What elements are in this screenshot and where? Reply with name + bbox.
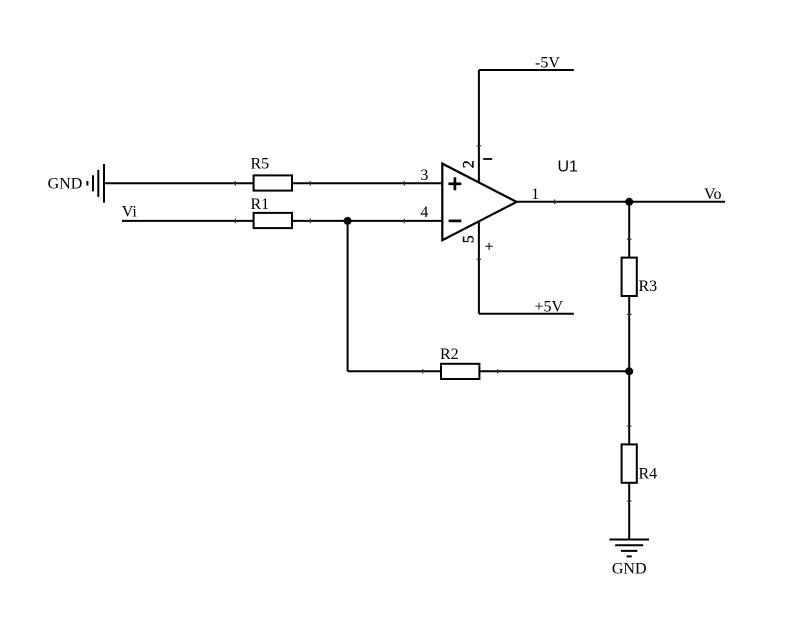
wire GND to pin 3 xyxy=(104,182,442,184)
wire R2 horizontal xyxy=(348,370,630,372)
ground symbol (bottom earth ground) xyxy=(609,540,649,557)
power symbol GND (left, rotated earth ground) xyxy=(87,164,104,203)
pin end ticks R2 xyxy=(423,369,498,374)
resistor R5 xyxy=(251,156,293,191)
wire output node to R3 xyxy=(628,202,630,371)
pin 2 polarity minus mark xyxy=(483,158,492,160)
junction node output/R3 xyxy=(625,198,633,206)
svg-text:U1: U1 xyxy=(558,158,579,175)
svg-text:2: 2 xyxy=(461,160,478,168)
svg-text:Vi: Vi xyxy=(122,204,138,221)
svg-text:R1: R1 xyxy=(251,196,270,213)
svg-text:4: 4 xyxy=(420,204,428,221)
svg-text:R3: R3 xyxy=(639,278,658,295)
svg-text:3: 3 xyxy=(420,167,428,184)
svg-text:-5V: -5V xyxy=(535,54,560,71)
pin end ticks R4 xyxy=(627,426,632,501)
op-amp non-inverting + mark xyxy=(448,177,461,190)
wire output pin 1 to Vo xyxy=(517,201,725,203)
svg-text:+5V: +5V xyxy=(535,299,564,316)
svg-text:GND: GND xyxy=(48,176,83,193)
op-amp inverting - mark xyxy=(449,220,462,223)
pin end ticks R1 xyxy=(235,219,310,224)
svg-text:5: 5 xyxy=(461,235,478,243)
wire feedback vertical from node A xyxy=(347,221,349,371)
op-amp U1 triangle xyxy=(442,164,516,241)
wire -5V horizontal xyxy=(479,69,574,71)
pin end ticks R5 xyxy=(235,181,310,186)
wire pin 2 vertical (-5V supply) xyxy=(478,70,480,183)
junction node A (R1/feedback) xyxy=(344,217,352,225)
wire pin 5 vertical (+5V supply) xyxy=(478,221,480,314)
pin end ticks R3 xyxy=(627,239,632,314)
wire node B to R4 to ground xyxy=(628,371,630,539)
resistor R4 xyxy=(622,444,658,482)
svg-text:Vo: Vo xyxy=(704,186,722,203)
svg-text:R4: R4 xyxy=(639,465,658,482)
pin end ticks U1 pins 3,4,1,2,5 xyxy=(404,146,554,259)
pin 5 polarity plus mark xyxy=(485,243,492,250)
svg-text:GND: GND xyxy=(612,560,647,577)
resistor R3 xyxy=(622,258,658,296)
svg-text:1: 1 xyxy=(531,186,539,203)
svg-text:R2: R2 xyxy=(440,346,459,363)
wire Vi to pin 4 xyxy=(122,220,442,222)
svg-text:R5: R5 xyxy=(251,156,270,173)
junction node B (R2/R3/R4) xyxy=(625,367,633,375)
wire +5V horizontal xyxy=(479,313,574,315)
resistor R2 xyxy=(440,346,479,379)
resistor R1 xyxy=(251,196,293,228)
